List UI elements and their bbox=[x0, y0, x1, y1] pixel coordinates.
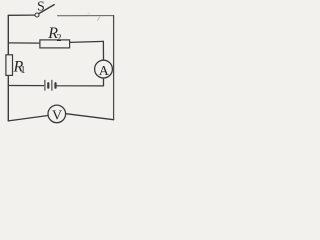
wire ammeter to battery rail bbox=[103, 78, 105, 86]
wire top-right segment bbox=[58, 15, 114, 17]
scan noise mark small tick bbox=[88, 12, 90, 15]
wire battery rail left bbox=[8, 85, 43, 87]
wire R2 branch left bbox=[8, 42, 40, 44]
voltmeter V body bbox=[48, 105, 66, 123]
svg-text:S: S bbox=[37, 0, 45, 15]
svg-text:2: 2 bbox=[57, 33, 62, 44]
wire battery rail right bbox=[57, 85, 104, 87]
wire right rail bbox=[113, 16, 115, 120]
paper background bbox=[0, 0, 121, 130]
battery cell 1 negative plate bbox=[47, 83, 49, 88]
battery cell 2 positive plate bbox=[51, 80, 53, 90]
scan noise mark near top right bbox=[98, 17, 101, 21]
resistor R1 body bbox=[6, 55, 13, 76]
wire bottom-right (voltmeter to right rail) bbox=[66, 114, 114, 120]
battery cell 1 positive plate bbox=[44, 80, 46, 90]
wire ammeter drop bbox=[102, 41, 104, 60]
switch S blade bbox=[39, 5, 54, 14]
svg-text:1: 1 bbox=[21, 65, 26, 76]
wire left rail bbox=[7, 15, 9, 121]
wire R2 branch right bbox=[70, 41, 104, 42]
svg-text:A: A bbox=[99, 64, 110, 79]
ammeter A body bbox=[95, 60, 113, 78]
switch S pivot contact bbox=[35, 13, 39, 17]
wire bottom-left (left rail to voltmeter) bbox=[8, 116, 48, 121]
svg-text:V: V bbox=[52, 109, 62, 124]
battery cell 2 negative plate bbox=[54, 83, 56, 88]
resistor R2 body bbox=[40, 40, 70, 48]
wire top-left segment bbox=[8, 14, 34, 16]
